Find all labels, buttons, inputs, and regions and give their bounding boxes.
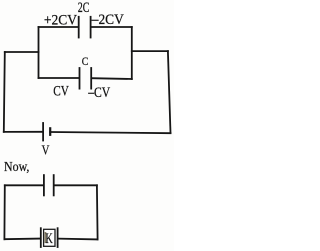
wire: top branch right (from 2C right plate) — [91, 26, 132, 28]
wire: second circuit bottom right — [58, 238, 97, 241]
wire: second circuit top side left — [5, 184, 43, 186]
wire: left jog from outer rail to junction — [5, 51, 39, 53]
wire: left junction vertical joining 2C and C branches — [38, 27, 40, 78]
svg-text:+2CV: +2CV — [44, 12, 78, 28]
capacitor C — [80, 68, 92, 89]
wire: second circuit top side right — [54, 184, 97, 186]
wire: middle branch right (from C right plate) — [92, 77, 132, 80]
wire: right junction vertical joining 2C and C branches — [131, 27, 133, 79]
wire: middle branch left (to C left plate) — [39, 77, 79, 79]
wire: second circuit bottom left — [4, 238, 40, 241]
dielectric slab (boxed K) — [44, 229, 55, 246]
svg-text:–2CV: –2CV — [91, 12, 124, 28]
wire: second circuit left rail — [3, 185, 5, 239]
svg-text:V: V — [42, 144, 50, 159]
scan artifact inside dielectric box — [45, 232, 47, 243]
wire: right jog from junction to outer rail — [132, 50, 168, 52]
wire: left outer rail — [4, 52, 5, 132]
wire: bottom left to battery — [4, 131, 43, 133]
battery V — [43, 123, 50, 141]
capacitor 2C — [79, 17, 91, 38]
svg-text:Now,: Now, — [4, 159, 29, 174]
capacitor (top of second circuit) — [44, 175, 54, 195]
wire: top branch left (to 2C left plate) — [39, 26, 79, 28]
svg-text:–CV: –CV — [87, 85, 110, 101]
wire: second circuit right rail — [96, 185, 99, 239]
wire: right outer rail — [168, 51, 171, 133]
svg-text:C: C — [82, 54, 89, 68]
svg-text:CV: CV — [53, 83, 69, 99]
wire: bottom right from battery — [50, 132, 170, 133]
capacitor with dielectric K — [41, 228, 58, 247]
svg-text:2C: 2C — [78, 0, 90, 16]
svg-text:K: K — [45, 231, 53, 247]
